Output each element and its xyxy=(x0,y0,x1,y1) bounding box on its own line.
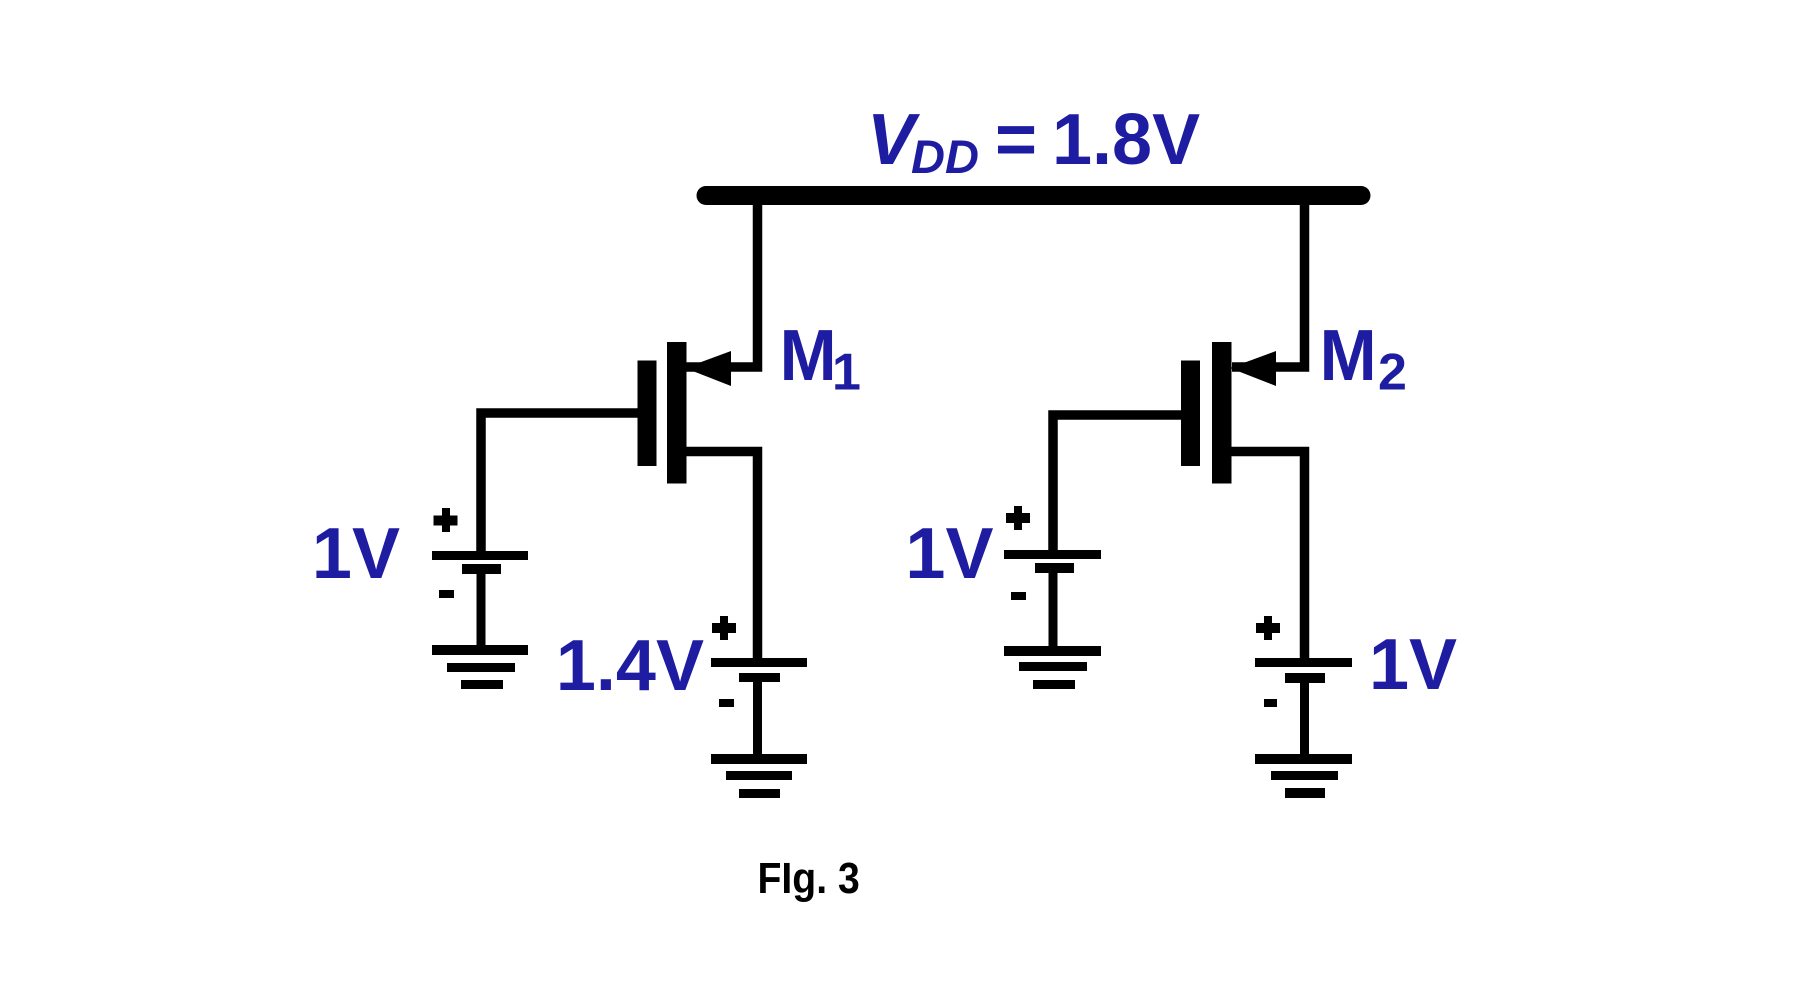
svg-text:1.8V: 1.8V xyxy=(1052,100,1200,180)
svg-text:2: 2 xyxy=(1378,344,1407,402)
plus sign xyxy=(434,516,458,526)
svg-text:M: M xyxy=(780,314,837,395)
ground (1.4V battery) xyxy=(711,754,807,798)
plus sign xyxy=(712,623,736,633)
long plate xyxy=(1004,550,1101,559)
long plate xyxy=(711,658,807,667)
transistor M2 xyxy=(1181,342,1305,658)
M2 source arrow xyxy=(1230,351,1276,386)
svg-text:1V: 1V xyxy=(312,514,400,594)
minus sign xyxy=(439,590,454,598)
wire VDD to M1 source xyxy=(686,196,758,367)
M2 drain wire xyxy=(1231,452,1305,659)
wire to ground xyxy=(1300,683,1309,756)
M2 channel bar xyxy=(1212,342,1232,484)
wire M1 gate xyxy=(481,413,638,553)
long plate xyxy=(1255,658,1352,667)
svg-text:1: 1 xyxy=(832,344,861,402)
ground (M2 drain battery) xyxy=(1255,754,1352,798)
net VDD label : V_DD = 1.8V xyxy=(867,100,1200,183)
ground (M2 gate battery) xyxy=(1004,646,1101,689)
svg-text:1V: 1V xyxy=(1369,625,1457,705)
M1 gate bar xyxy=(638,361,657,467)
M2 gate bar xyxy=(1181,361,1200,467)
battery 1V (M2 gate) xyxy=(1004,506,1101,647)
minus sign xyxy=(1264,699,1277,707)
short plate xyxy=(1035,563,1074,573)
wire to ground xyxy=(477,574,486,647)
svg-text:M: M xyxy=(1320,314,1377,395)
transistor M1 xyxy=(638,342,758,658)
M1 drain wire xyxy=(686,452,758,659)
wire M2 gate xyxy=(1053,415,1181,552)
wire to ground xyxy=(753,682,762,756)
plus sign xyxy=(1006,513,1030,523)
short plate xyxy=(1285,673,1325,683)
battery 1V (M2 drain) xyxy=(1255,616,1352,756)
svg-text:=: = xyxy=(995,100,1037,180)
label M2 xyxy=(1320,314,1407,401)
M1 source arrow xyxy=(685,351,731,386)
short plate xyxy=(739,673,780,682)
wire VDD to M2 source xyxy=(1232,196,1305,367)
battery 1V (M1 gate) xyxy=(432,508,528,647)
svg-text:1.4V: 1.4V xyxy=(556,626,704,706)
plus sign xyxy=(1256,623,1280,633)
svg-text:DD: DD xyxy=(911,130,979,183)
battery 1.4V (M1 drain) xyxy=(711,616,807,756)
label M1 xyxy=(780,314,861,401)
minus sign xyxy=(719,699,734,707)
svg-text:1V: 1V xyxy=(905,514,993,594)
short plate xyxy=(462,564,501,574)
ground (M1 gate battery) xyxy=(432,645,528,689)
VDD rail xyxy=(706,186,1361,205)
minus sign xyxy=(1011,592,1026,600)
svg-text:FIg. 3: FIg. 3 xyxy=(758,853,860,903)
long plate xyxy=(432,551,528,560)
M1 channel bar xyxy=(667,342,687,484)
wire to ground xyxy=(1049,573,1058,647)
